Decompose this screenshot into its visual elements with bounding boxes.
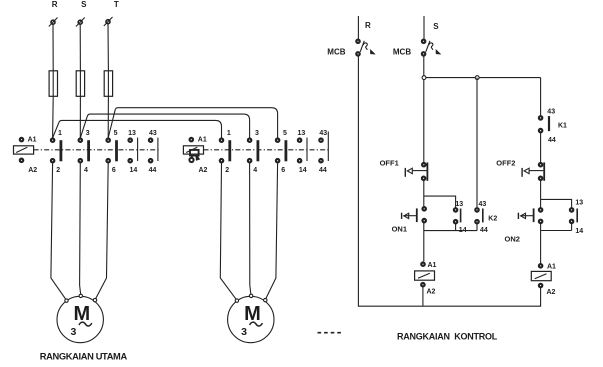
svg-text:S: S <box>81 0 87 9</box>
fuse F1 <box>49 71 57 97</box>
K2 contact 3-4 <box>248 139 258 163</box>
K1 aux contact 13-14 <box>129 138 138 163</box>
svg-text:43: 43 <box>547 109 555 116</box>
K2 aux contact 13-14 <box>298 138 307 163</box>
svg-text:A1: A1 <box>428 262 437 269</box>
wire from node down to K2 interlock contact <box>476 78 478 208</box>
wire 14 stub <box>571 224 573 231</box>
fuse F3 <box>104 71 112 97</box>
K1 contact 1-2 <box>51 139 61 163</box>
node on S rail <box>422 76 426 80</box>
svg-text:3: 3 <box>241 326 247 338</box>
terminal T <box>104 17 113 26</box>
svg-text:1: 1 <box>227 130 231 137</box>
MCB 1 <box>356 40 375 56</box>
relay coil K1 <box>415 271 435 280</box>
svg-text:ON2: ON2 <box>505 234 520 243</box>
relay coil K2 terminal A1 <box>539 264 542 267</box>
svg-text:A1: A1 <box>547 264 556 271</box>
svg-text:6: 6 <box>112 167 116 174</box>
wire branch to K1 sealing contact <box>424 196 456 208</box>
pushbutton ON2 (NO) <box>518 208 542 223</box>
svg-text:14: 14 <box>575 228 583 235</box>
svg-text:44: 44 <box>548 137 556 144</box>
fuse F2 <box>76 71 84 97</box>
contactor K2 coil terminal A1 <box>190 138 193 141</box>
wire OFF1 to ON1 <box>423 181 425 207</box>
wire T to fuse <box>107 24 109 71</box>
svg-text:6: 6 <box>281 167 285 174</box>
pushbutton OFF2 (NC) <box>522 162 544 180</box>
svg-text:A2: A2 <box>427 289 436 296</box>
svg-text:44: 44 <box>319 167 327 174</box>
wire branch L2 to K2 contact 3 <box>80 114 249 138</box>
motor M2 tilde <box>250 322 263 326</box>
K1 aux contact 43-44 <box>539 116 549 132</box>
svg-text:14: 14 <box>130 167 138 174</box>
wire R rail down to bottom bus <box>358 56 540 306</box>
wire K1 contact 4 to motor M1 <box>80 163 81 296</box>
wire fuse F1 to K1 contact 1 <box>52 96 55 138</box>
wire R rail top <box>357 16 359 39</box>
wire branch L1 to K2 contact 1 <box>53 120 222 137</box>
contactor K2 coil <box>183 146 203 154</box>
node branch K2 interlock <box>475 76 479 80</box>
K1 mechanical linkage (dash-dot) <box>34 149 160 151</box>
relay coil K1 terminal A2 <box>421 283 424 286</box>
svg-text:ON1: ON1 <box>392 225 407 234</box>
svg-text:1: 1 <box>58 130 62 137</box>
relay coil K2 terminal A2 <box>539 284 542 287</box>
K2 mechanical linkage (dash-dot) <box>204 149 331 151</box>
svg-text:RANGKAIAN KONTROL: RANGKAIAN KONTROL <box>397 331 498 341</box>
svg-text:43: 43 <box>479 201 487 208</box>
wire OFF2 to ON2 <box>540 181 542 208</box>
wire S rail top <box>423 16 425 39</box>
terminal S <box>76 18 85 27</box>
svg-text:MCB: MCB <box>327 48 345 57</box>
svg-text:R: R <box>365 21 371 30</box>
svg-text:A1: A1 <box>28 137 37 144</box>
svg-text:14: 14 <box>299 167 307 174</box>
svg-text:13: 13 <box>575 200 583 207</box>
contactor K1 coil terminal A2 <box>20 159 23 162</box>
wire K2 contact 2 to motor M2 <box>220 163 237 300</box>
wire 44 stub <box>476 224 478 231</box>
contactor K2 coil terminal A2 <box>189 158 193 162</box>
svg-text:43: 43 <box>149 130 157 137</box>
wire top bus to K1 43 <box>540 78 542 116</box>
svg-text:2: 2 <box>56 167 60 174</box>
svg-text:RANGKAIAN UTAMA: RANGKAIAN UTAMA <box>40 351 128 361</box>
svg-text:3: 3 <box>71 326 77 338</box>
K1 sealing contact 13-14 <box>454 208 461 223</box>
K1 contact 3-4 <box>79 139 89 163</box>
svg-text:3: 3 <box>255 130 259 137</box>
wire ON2 to coil K2 <box>540 224 542 264</box>
svg-text:43: 43 <box>319 130 327 137</box>
K2 sealing contact 13-14 <box>570 208 577 223</box>
motor M1 <box>57 294 103 343</box>
wire K2 contact 4 to motor M2 <box>250 163 251 296</box>
wire S to fuse <box>79 24 81 70</box>
wire K2 contact 6 to motor M2 <box>265 163 277 300</box>
wire K1 contact 6 to motor M1 <box>95 163 108 300</box>
svg-text:T: T <box>114 0 119 9</box>
svg-text:A2: A2 <box>28 167 37 174</box>
MCB 2 <box>422 40 441 56</box>
svg-text:44: 44 <box>480 227 488 234</box>
svg-text:2: 2 <box>225 167 229 174</box>
svg-text:A2: A2 <box>547 289 556 296</box>
wire S rail MCB to OFF1 <box>423 56 425 163</box>
svg-text:3: 3 <box>86 130 90 137</box>
motor M2 <box>228 294 274 343</box>
contactor K1 coil <box>14 146 34 154</box>
pushbutton OFF1 (NC) <box>405 162 427 180</box>
svg-text:K2: K2 <box>488 215 497 222</box>
svg-text:OFF2: OFF2 <box>496 159 515 168</box>
svg-text:A2: A2 <box>199 167 208 174</box>
control top bus <box>424 77 541 79</box>
svg-text:5: 5 <box>114 130 118 137</box>
wire branch to K2 sealing contact <box>541 199 572 207</box>
relay coil K1 terminal A1 <box>421 263 424 266</box>
svg-text:MCB: MCB <box>393 48 411 57</box>
svg-text:4: 4 <box>84 167 88 174</box>
mouse cursor mark over K2 coil <box>190 150 199 160</box>
wire branch L3 to K2 contact 5 <box>108 108 277 138</box>
wire ON1 to coil K1 <box>423 223 425 262</box>
svg-text:13: 13 <box>298 130 306 137</box>
svg-text:S: S <box>433 22 439 31</box>
pushbutton ON1 (NO) <box>402 207 426 222</box>
K1 contact 5-6 <box>107 139 117 163</box>
wire 14 stub <box>455 224 457 231</box>
svg-text:13: 13 <box>128 130 136 137</box>
motor M1 tilde <box>79 322 92 326</box>
control bottom node line <box>424 230 477 232</box>
wire K1 contact 2 to motor M1 <box>51 163 67 300</box>
legend dashed line <box>318 332 344 334</box>
svg-text:A1: A1 <box>198 137 207 144</box>
control bottom node line 2 <box>541 230 572 232</box>
svg-text:R: R <box>52 0 58 9</box>
K2 contact 1-2 <box>220 139 230 163</box>
K2 contact 5-6 <box>276 139 286 163</box>
terminal R <box>49 18 58 27</box>
svg-text:K1: K1 <box>558 122 567 129</box>
svg-text:44: 44 <box>149 167 157 174</box>
relay coil K2 <box>531 271 551 280</box>
svg-text:5: 5 <box>283 130 287 137</box>
K2 interlock contact 43-44 <box>475 208 483 223</box>
svg-text:4: 4 <box>253 167 257 174</box>
svg-text:OFF1: OFF1 <box>380 159 399 168</box>
wire fuse F3 to K1 contact 5 <box>107 96 109 138</box>
wire K1 44 to OFF2 <box>540 133 542 163</box>
K1 aux contact 43-44 <box>149 138 158 163</box>
K2 aux contact 43-44 <box>319 132 328 163</box>
contactor K1 coil terminal A1 <box>20 138 23 141</box>
wire K1 A2 to bottom bus <box>422 287 424 306</box>
wire R to fuse <box>52 24 54 70</box>
svg-text:13: 13 <box>455 201 463 208</box>
wire fuse F2 to K1 contact 3 <box>79 96 81 138</box>
